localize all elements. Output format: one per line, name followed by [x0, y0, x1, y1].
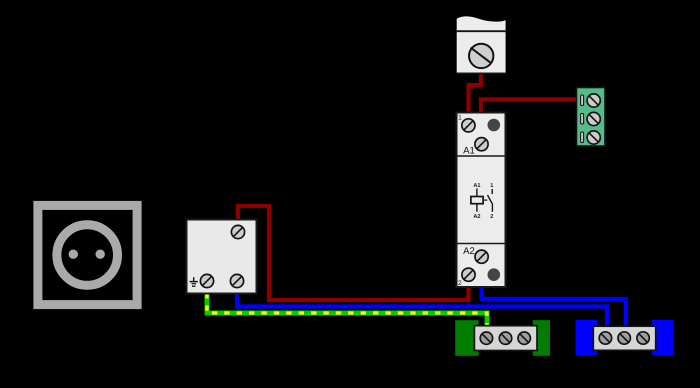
- screw 2: [587, 112, 600, 125]
- svg-text:A1: A1: [463, 145, 475, 156]
- earth screw 2: [499, 332, 511, 344]
- svg-text:A1: A1: [473, 183, 480, 189]
- wire N neutral: junction box to neutral terminal block: [237, 293, 607, 327]
- terminal screw A2: [475, 250, 488, 263]
- slot 1: [581, 95, 584, 106]
- svg-text:2: 2: [458, 280, 462, 287]
- wire PE earth green: [207, 293, 487, 327]
- svg-text:2: 2: [490, 214, 493, 220]
- screw 3: [587, 131, 600, 144]
- divider top: [457, 155, 506, 157]
- link dash: [484, 199, 487, 201]
- wire N neutral: relay A2 to neutral terminal block: [482, 286, 626, 327]
- wire L phase: relay terminal 2 to junction box: [238, 206, 469, 300]
- contact fixed lead: [491, 189, 493, 194]
- ground symbol: [193, 277, 195, 281]
- wire PE earth yellow stripe: [207, 293, 487, 327]
- lamp connector (green terminal strip): [577, 88, 606, 147]
- contactor relay module: [457, 113, 506, 288]
- supply terminal screw: [469, 44, 493, 68]
- coil lead top: [476, 189, 478, 197]
- terminal screw 1: [462, 119, 475, 132]
- svg-text:A2: A2: [473, 214, 480, 220]
- wall socket outlet: [38, 205, 137, 304]
- neutral screw 2: [618, 332, 630, 344]
- wire L phase: relay terminal 1 to lamp connector: [481, 99, 577, 114]
- slot 2: [581, 114, 584, 125]
- neutral screw 3: [637, 332, 649, 344]
- screw 1: [587, 94, 600, 107]
- coil lead bottom: [476, 204, 478, 212]
- earth screw 1: [480, 332, 492, 344]
- contact blade: [488, 195, 493, 205]
- junction screw neutral: [230, 274, 243, 287]
- svg-text:1: 1: [490, 183, 493, 189]
- terminal hole (dark) bottom: [488, 268, 501, 281]
- coil K1: [471, 197, 483, 204]
- slot 3: [581, 132, 584, 143]
- earth screw 3: [518, 332, 530, 344]
- terminal hole (dark) top: [488, 119, 501, 132]
- neutral screw 1: [599, 332, 611, 344]
- junction screw top: [231, 225, 244, 238]
- svg-text:1: 1: [458, 114, 462, 121]
- earth terminal block (green): [455, 320, 550, 356]
- supply feed box (fuse): [457, 16, 506, 73]
- terminal screw A1: [475, 138, 488, 151]
- contact bottom lead: [491, 205, 493, 212]
- junction screw earth: [200, 274, 213, 287]
- terminal screw 2: [462, 268, 475, 281]
- neutral terminal block (blue): [576, 320, 674, 356]
- wire L phase: supply to relay terminal 1: [469, 72, 481, 114]
- divider bottom: [457, 243, 506, 245]
- junction box: [187, 220, 257, 294]
- svg-text:A2: A2: [463, 246, 475, 257]
